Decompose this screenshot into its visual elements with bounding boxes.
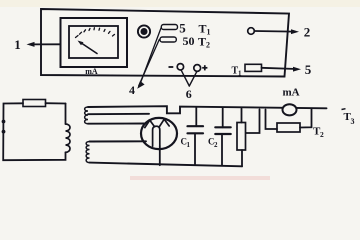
wire to arrow 5 [262, 68, 297, 69]
wire from rail down to R tap [246, 109, 260, 133]
bottom rail [90, 163, 243, 167]
label T3 (far right) [342, 108, 346, 111]
panel box (instrument front panel) [41, 9, 289, 77]
meter scale ticks [76, 28, 115, 38]
svg-text:1: 1 [207, 28, 211, 37]
bleeder resistor R [237, 123, 246, 151]
meter needle [81, 43, 98, 54]
paper background [0, 0, 360, 181]
top winding left loops [85, 107, 88, 124]
top winding line 3 [88, 123, 145, 125]
svg-text:1: 1 [187, 141, 191, 149]
coil on right side of loop [66, 124, 71, 152]
anode zigzag [145, 120, 155, 127]
bottom winding left loops [86, 142, 89, 163]
wire shunt right up to rail [300, 108, 312, 127]
top winding line 2 [88, 113, 149, 115]
terminal T1 jack [161, 25, 177, 30]
resistor (top of loop) [23, 100, 46, 107]
svg-text:1: 1 [238, 70, 242, 78]
svg-text:2: 2 [304, 25, 311, 40]
svg-text:4: 4 [129, 83, 135, 97]
knob (regulator) [138, 25, 150, 37]
selector pointer lines (4) [139, 28, 161, 86]
wire to arrow 2 [255, 30, 295, 33]
loop wires [3, 103, 65, 160]
capacitor C1 plates [188, 125, 204, 127]
arrow 1 lead wire [30, 43, 61, 45]
output terminal circle (minus) [177, 64, 183, 70]
terminal rect near T1 (output) [245, 64, 262, 71]
svg-text:2: 2 [206, 41, 210, 50]
meter M outer case [61, 18, 128, 67]
junction dots [2, 120, 6, 124]
mA meter circle [283, 104, 297, 115]
meter M inner window [69, 26, 118, 58]
bleeder resistor R leads [241, 109, 243, 123]
svg-text:2: 2 [214, 141, 218, 149]
output terminal circle (plus) [194, 65, 201, 72]
terminal circle (2) [248, 28, 255, 35]
svg-text:mA: mA [282, 87, 299, 99]
cathode lead to rail [159, 146, 161, 165]
svg-text:T: T [198, 35, 206, 49]
svg-text:T: T [199, 22, 207, 36]
wire from rail to shunt left [266, 110, 278, 130]
capacitor C2 leads [222, 108, 224, 128]
svg-text:3: 3 [351, 117, 355, 126]
svg-text:50: 50 [183, 34, 195, 48]
label plus [202, 65, 207, 70]
svg-text:2: 2 [320, 130, 324, 139]
svg-text:6: 6 [186, 87, 192, 101]
svg-text:1: 1 [14, 37, 21, 52]
terminal T2 jack [160, 37, 176, 42]
capacitor C2 plates [215, 126, 230, 128]
top winding line 1 + step to anode rail [88, 106, 327, 113]
bottom winding top line [90, 140, 147, 142]
label minus [169, 66, 174, 68]
pointer V to 6 [181, 70, 197, 86]
capacitor C1 leads [195, 107, 197, 126]
svg-text:5: 5 [305, 62, 312, 77]
svg-text:mA: mA [85, 67, 98, 76]
filament [153, 126, 160, 146]
shunt resistor [277, 123, 300, 132]
